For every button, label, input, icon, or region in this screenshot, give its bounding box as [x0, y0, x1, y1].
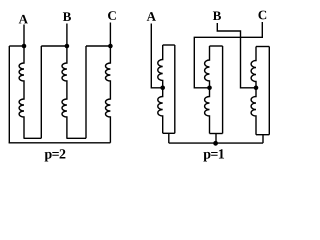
node tap C dot — [207, 86, 212, 91]
group2 bottom bridge — [210, 133, 223, 135]
coil group1 (two sections with centre tap) — [158, 45, 163, 133]
wire: coil A bottom U-turn — [24, 137, 41, 139]
wire: terminal C route to group2 tap — [194, 22, 262, 88]
group2 top bridge — [210, 45, 223, 47]
wire: bottom rail (left diagram) — [9, 142, 111, 144]
group1 top bridge — [163, 44, 175, 46]
group3 bottom bridge — [256, 134, 269, 136]
label A (right) — [147, 12, 156, 21]
node A junction dot — [22, 44, 27, 49]
coil phase C (two sections, down to rail) — [105, 46, 110, 143]
node tap A dot — [160, 86, 165, 91]
node rail dot — [213, 141, 218, 146]
wire: terminal B lead — [66, 24, 68, 47]
wire: return to C junction — [86, 45, 110, 47]
group2 right return wire — [222, 46, 224, 134]
wire: left outer vertical — [8, 46, 10, 143]
group3 right return wire — [268, 47, 270, 135]
wire: group1 stub to rail — [168, 133, 170, 143]
coil phase A (two sections) — [19, 46, 24, 139]
wire: bottom rail (right diagram) — [169, 142, 263, 144]
node tap B dot — [254, 86, 259, 91]
wire: B-to-C return vertical — [85, 46, 87, 138]
wire: terminal A drop — [151, 24, 162, 88]
wire: terminal C lead — [109, 23, 111, 47]
label C (left) — [108, 11, 116, 20]
wire: group3 stub to rail — [262, 135, 264, 143]
label p=1 — [203, 149, 224, 161]
group1 right return wire — [174, 45, 176, 133]
wire: A-to-B return vertical — [40, 46, 42, 138]
wire: terminal A lead — [23, 25, 25, 47]
group1 bottom bridge — [163, 132, 175, 134]
wire: terminal B route to group3 tap — [217, 23, 256, 88]
label C (right) — [258, 11, 266, 20]
wire: group2 stub to rail — [215, 134, 217, 144]
coil group2 (two sections with centre tap) — [205, 46, 210, 134]
wire: coil B bottom U-turn — [67, 137, 86, 139]
label B (left) — [63, 12, 71, 21]
wire: return to B junction — [41, 45, 66, 47]
group3 top bridge — [256, 46, 269, 48]
node B junction dot — [65, 44, 70, 49]
label B (right) — [213, 11, 221, 20]
coil phase B (two sections) — [62, 46, 67, 139]
wire: A junction to left side — [9, 45, 24, 47]
coil group3 (two sections with centre tap) — [251, 47, 256, 135]
node C junction dot — [108, 44, 113, 49]
label A (left) — [19, 15, 28, 24]
label p=2 — [45, 149, 66, 161]
